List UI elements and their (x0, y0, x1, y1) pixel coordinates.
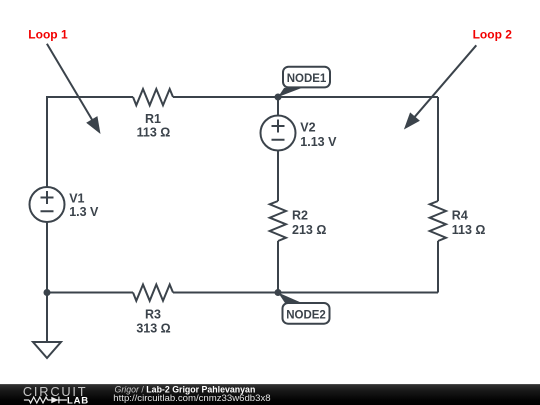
voltage source V1 (30, 187, 65, 222)
svg-text:LAB: LAB (67, 395, 89, 405)
wire right vertical upper (437, 97, 439, 201)
annotation Loop 1 arrowhead (86, 116, 100, 134)
wire bottom-left horizontal (47, 292, 133, 294)
node NODE2 callout box (283, 303, 330, 324)
wire left vertical lower (46, 222, 48, 293)
svg-text:313 Ω: 313 Ω (136, 321, 170, 335)
wire middle between V2 and R2 (277, 151, 279, 202)
wire left vertical upper (46, 96, 48, 187)
annotation Loop 1 arrow line (47, 44, 93, 122)
svg-text:1.13 V: 1.13 V (300, 135, 337, 149)
svg-text:NODE2: NODE2 (286, 310, 326, 322)
node junction ground (44, 289, 51, 296)
svg-text:http://circuitlab.com/cnmz33w6: http://circuitlab.com/cnmz33w6db3x8 (113, 393, 270, 404)
voltage source V2 (261, 116, 296, 151)
svg-text:113 Ω: 113 Ω (137, 126, 171, 140)
resistor R1 (133, 89, 173, 105)
annotation Loop 2 arrowhead (404, 112, 420, 129)
wire ground stem (46, 293, 48, 343)
wire middle lower (277, 241, 279, 293)
node junction at NODE1 (275, 94, 282, 101)
footer bar (0, 384, 540, 405)
svg-text:1.3 V: 1.3 V (69, 205, 99, 219)
svg-text:R3: R3 (145, 307, 161, 321)
svg-text:213 Ω: 213 Ω (292, 223, 326, 237)
resistor R3 (133, 285, 173, 301)
wire top-right horizontal (173, 96, 438, 98)
svg-text:V1: V1 (69, 192, 84, 206)
svg-text:R4: R4 (452, 209, 468, 223)
resistor R2 (270, 201, 286, 241)
svg-text:113 Ω: 113 Ω (452, 223, 486, 237)
resistor R4 (430, 201, 446, 241)
svg-text:R1: R1 (145, 112, 161, 126)
svg-text:R2: R2 (292, 209, 308, 223)
node NODE1 callout box (283, 67, 330, 88)
wire middle upper (277, 97, 279, 116)
node NODE2 callout tail (278, 293, 302, 304)
footer logo mini schematic wire with resistor and diode (24, 397, 67, 404)
node NODE1 callout tail (278, 88, 302, 97)
wire right vertical lower (437, 241, 439, 293)
node junction at NODE2 (275, 289, 282, 296)
svg-text:Loop 2: Loop 2 (473, 28, 513, 42)
svg-text:NODE1: NODE1 (287, 73, 327, 85)
wire bottom-right horizontal (173, 292, 438, 294)
svg-text:Loop 1: Loop 1 (28, 28, 68, 42)
svg-text:V2: V2 (300, 121, 315, 135)
ground (33, 342, 61, 358)
wire top-left horizontal (47, 96, 133, 98)
annotation Loop 2 arrow line (414, 45, 477, 118)
